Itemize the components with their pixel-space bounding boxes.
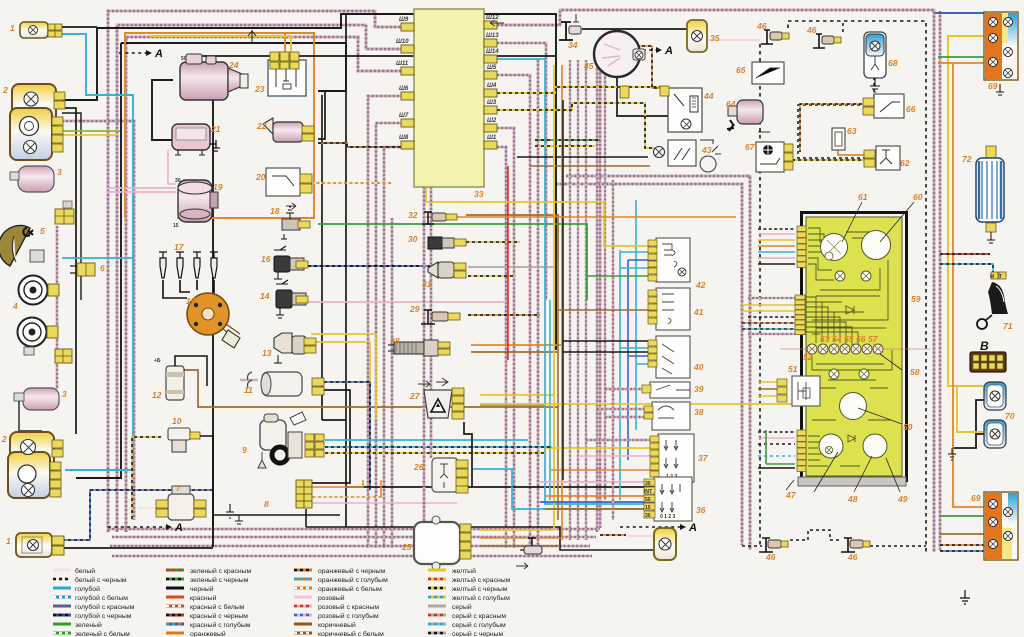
wire feeds switch 40 [620,347,656,349]
wire brown from coil 12 [181,370,558,407]
svg-text:15: 15 [186,296,196,306]
switch 38 [644,402,690,430]
wire striped verticals below fusebox [423,187,426,522]
wire dashed A marker top left [119,52,146,54]
wire orange main left loop [125,33,314,218]
switch 62 [864,146,900,170]
svg-text:Ш8: Ш8 [399,135,409,141]
wire blue ignition 36 [540,501,654,503]
wire orange-black 66 feed [800,104,862,152]
svg-text:10: 10 [172,416,182,426]
wire dashed boundary left [759,44,761,545]
wire yellow-black from fusebox Sh4 [497,87,662,93]
wire blue-black bottom 69 [940,550,985,552]
headlight 2 top [10,84,65,160]
svg-text:зеленый: зеленый [75,621,102,629]
wire orange resistor 63 to 62 [838,148,864,155]
wire yellow-black pump 10 [132,437,161,520]
svg-text:голубой с белым: голубой с белым [75,594,128,602]
distributor 15 [187,293,240,348]
cluster gauge 48 [819,434,843,458]
svg-text:желтый с красным: желтый с красным [452,576,511,584]
wire yellow-green headlamp stubs [62,130,120,132]
svg-text:71: 71 [1003,321,1013,331]
svg-text:53: 53 [820,334,830,344]
wire striped left bundle 4 [62,121,134,520]
wire orange-black switch 22 [318,143,403,147]
svg-text:24: 24 [228,60,239,70]
svg-text:44: 44 [703,91,714,101]
heater radiator 72 [976,146,1004,243]
wire cluster stubs upper [758,228,795,230]
washer pump 7 [156,486,234,520]
svg-text:A: A [688,522,697,534]
wire pink block 8 [311,502,457,504]
wire black weave horizontal [517,156,648,158]
wire gray from sensor 31 [468,266,556,268]
legend column 1 [53,567,135,637]
svg-text:46: 46 [806,25,817,35]
svg-text:46: 46 [847,552,858,562]
wire dashed bottom sensors 46 [742,545,762,547]
svg-text:46: 46 [756,21,767,31]
svg-text:40: 40 [693,362,704,372]
sensor 32 [422,212,457,224]
svg-text:45: 45 [583,61,594,71]
red guide line across cluster [780,348,930,350]
svg-text:14: 14 [260,291,270,301]
washer pump 11 [248,372,325,396]
wire cyan relay 26 [473,469,648,509]
svg-text:30: 30 [175,178,181,184]
wire orange sensor 28 [471,344,562,346]
cluster lamps mid pair [829,369,839,379]
svg-text:57: 57 [868,334,879,344]
svg-text:16: 16 [261,254,271,264]
wire red-black heater 72 [940,253,990,255]
sensor 30 [428,237,466,249]
svg-text:5: 5 [40,226,45,236]
wire yellow-black sensor 31 [468,275,516,277]
relay 44 [620,86,702,132]
wire black vertical x612 area [562,100,564,480]
fuse box left connectors Sh9-Sh8 [401,23,414,149]
svg-text:43: 43 [701,145,712,155]
wire yellow fusebox top stubs [290,36,292,57]
wire orange pair block 8 [310,480,363,487]
wire cyan sidelamp run [62,34,133,470]
wire black mid vertical x213 [212,97,214,547]
svg-text:11: 11 [244,385,253,395]
svg-text:12: 12 [152,390,162,400]
svg-text:55: 55 [844,334,854,344]
wire striped feed switch 37 [586,439,650,441]
switch 43 [654,140,722,172]
wire pink feed switch 37 [578,455,650,457]
svg-text:3: 3 [62,389,67,399]
wire orange-white relay 20 [314,182,392,184]
clock 45 [594,31,645,77]
lamp block 69 bottom [984,492,1018,560]
svg-text:35: 35 [710,33,720,43]
wire striped right vertical bundle second [939,11,942,550]
wire brown feed switch 41 [558,309,656,311]
svg-text:Ш3: Ш3 [487,100,497,106]
cluster pins left middle [795,295,805,335]
resistor 63 [832,128,845,150]
svg-text:Ш5: Ш5 [487,65,497,71]
connector mid-left [55,349,72,363]
svg-text:1: 1 [6,536,11,546]
sensor 18 [281,207,310,239]
cluster bottom bar [798,477,906,486]
svg-text:A: A [154,48,163,60]
svg-text:Т: Т [999,274,1002,280]
wire orange top right to 69 and down [938,62,988,64]
lamp 1 top [20,22,97,38]
wire pale pink to lamp 35b [626,535,656,537]
wire blue-black sensor 16 [308,265,430,267]
wire dashed A marker top centre [630,49,656,51]
wire yellow-black dashed weave 2 [535,145,595,147]
wire orange-black to lamp 35b [600,534,626,536]
svg-text:37: 37 [698,453,709,463]
svg-text:39: 39 [694,384,704,394]
wire black left column pair [62,108,76,434]
svg-text:INT: INT [644,489,652,495]
wire green bottom 69 [940,515,985,517]
svg-text:52: 52 [803,352,813,362]
svg-text:2: 2 [2,85,8,95]
wire brown relay 25 [480,545,560,547]
svg-text:69: 69 [988,81,998,91]
svg-text:Ш7: Ш7 [399,113,409,119]
svg-text:50: 50 [903,422,913,432]
gear shifter 71 [977,282,1008,329]
svg-text:9: 9 [242,445,247,455]
svg-text:67: 67 [745,142,756,152]
cluster lamps top pair [835,271,845,281]
wire cyan-black heater 72 [940,264,993,272]
connector block B [970,352,1006,372]
connector square left [63,201,72,208]
cluster gauge 61 [821,234,848,261]
svg-text:розовый: розовый [318,594,345,602]
svg-text:оранжевый с белым: оранжевый с белым [318,585,382,593]
svg-text:голубой с черным: голубой с черным [75,612,132,620]
wire pink ignition 36 [540,481,654,483]
brake switch 34 bottom [520,538,542,554]
wire orange-black bottom 69 [940,544,985,546]
svg-text:белый: белый [75,567,95,575]
svg-text:коричневый с белым: коричневый с белым [318,630,384,637]
sensor 46b [813,34,841,48]
reservoir 3 top [10,166,74,224]
wire striped vertical x613 [612,180,614,520]
sensor 29 [421,310,460,324]
svg-text:60: 60 [913,192,923,202]
svg-text:4: 4 [12,301,18,311]
wire black feeds 40 [563,340,648,342]
svg-text:30: 30 [408,234,418,244]
svg-text:голубой: голубой [75,585,100,593]
wire black 22 to 23 [318,91,325,139]
wire blue-black washer 11 [324,382,370,490]
svg-text:оранжевый с голубым: оранжевый с голубым [318,576,388,584]
svg-text:Ш1: Ш1 [487,135,497,141]
wire green feed switch 41 [587,275,648,277]
svg-text:коричневый: коричневый [318,621,356,629]
relay 20 [266,168,312,196]
svg-text:32: 32 [408,210,418,220]
wire yellow hazard 27 [480,394,554,396]
wire green top right to 69 [938,56,988,58]
svg-text:64: 64 [726,99,736,109]
svg-text:Ш14: Ш14 [486,49,499,55]
wire striped feeds switch 39/38 [605,388,642,390]
svg-text:68: 68 [888,58,898,68]
generator 19 [178,180,218,222]
wire striped pink pair right [556,184,742,545]
wire orange long vertical [561,65,563,540]
svg-text:28: 28 [389,336,400,346]
fuse box 33 [414,9,484,187]
wire black 34 to 35 top [582,28,688,30]
svg-text:B: B [980,339,989,353]
wire black 70 lamps ground [952,400,990,448]
wire red vertical centre [507,166,509,360]
sensor 14 [276,280,308,318]
ignition switch 22 [263,118,314,142]
wire striped frame second [117,25,403,532]
wire black ignition feed 36 [346,486,654,488]
svg-text:зеленый с черным: зеленый с черным [190,576,249,584]
svg-text:зеленый с красным: зеленый с красным [190,567,252,575]
sensor 6 [70,263,95,276]
svg-text:19: 19 [213,182,223,192]
wire dashed A marker bottom left [108,526,166,528]
svg-text:2: 2 [1,434,7,444]
wire black bottom long [56,547,213,549]
fan 5 [0,226,44,266]
wires striped mid-left bundle from fusebox left connectors [368,96,403,548]
svg-text:47: 47 [785,490,797,500]
svg-text:22: 22 [256,121,267,131]
sensor 16 [274,246,308,279]
svg-text:42: 42 [695,280,706,290]
wire bundle wiper 9 [325,439,528,441]
svg-text:18: 18 [270,206,280,216]
svg-text:33: 33 [474,189,484,199]
svg-text:Ш13: Ш13 [486,33,499,39]
svg-text:серый с голубым: серый с голубым [452,621,506,629]
svg-text:49: 49 [897,494,908,504]
dome lamp 70a [984,382,1006,410]
svg-text:A: A [174,522,183,534]
svg-text:48: 48 [847,494,858,504]
wire brown ignition 36 [545,508,654,510]
svg-text:красный с голубым: красный с голубым [190,621,251,629]
wire blue top right to 69 [935,12,988,14]
cluster gauge 49 [863,434,887,458]
wire brown weave horizontal [530,165,650,167]
wire dashed boundary right [788,21,926,552]
wires striped centre bundle from fusebox right connectors [497,147,506,548]
cluster gauge 60 [862,231,891,260]
svg-text:черный: черный [190,585,214,593]
relay 51 [777,376,820,406]
wire orange-black sensor 29 [468,314,540,316]
wire cluster middle pin stubs [748,297,795,299]
svg-text:21: 21 [210,124,221,134]
svg-text:Ш2: Ш2 [487,118,497,124]
wire blue-black tail lamp 1b [56,490,213,540]
starter 24 [180,54,248,100]
svg-text:50: 50 [181,56,187,62]
switch 65 [752,62,784,84]
dome lamp 70b [948,420,1006,460]
fuel pump 10 [168,428,213,526]
wire yellow to relay 23 [150,36,291,57]
ignition switch 36 [644,477,692,521]
plug wires to distributor 15 [163,280,214,298]
svg-text:23: 23 [254,84,265,94]
callout lines cluster [786,202,914,492]
wire green-black dashed weave [535,139,600,141]
svg-text:красный: красный [190,594,217,602]
svg-text:розовый с красным: розовый с красным [318,603,379,611]
wiper motor 9 [258,412,324,468]
svg-text:13: 13 [262,348,272,358]
svg-text:красный с черным: красный с черным [190,612,248,620]
wire orange-black clock to 44 [636,46,664,88]
cluster gauge 50 [840,393,867,420]
heater motor 64 [727,100,763,131]
svg-text:желтый: желтый [452,567,476,575]
svg-text:41: 41 [693,307,704,317]
cluster diode 2 [848,435,855,442]
cluster pins left bottom [797,430,806,472]
svg-text:серый с красным: серый с красным [452,612,506,620]
wire yellow relay 25 [480,529,554,531]
switch 67 [756,142,793,172]
wire orange long y217 [426,216,736,218]
wire brown bottom 69 [940,533,985,535]
wire cyan-blue verticals near switches [619,250,621,500]
wire pink generator pair [106,187,176,189]
svg-text:30: 30 [645,513,651,519]
fuse box right connectors Sh12-Sh1 [484,21,497,149]
wire cyan hazard 27 [480,404,545,406]
wire dashed lamp 68 drop [798,77,874,158]
svg-text:59: 59 [911,294,921,304]
svg-text:29: 29 [409,304,420,314]
wire yellow switch 37 [545,447,658,449]
svg-text:61: 61 [858,192,868,202]
horn 4a [19,276,60,305]
wire yellow pair sensor 13 [311,334,376,420]
wire dashed A marker bottom centre [620,526,680,528]
sensor 46a [761,30,789,44]
wire striped reservoir drop [56,226,59,389]
wire black verticals centre-left [345,14,347,527]
connector block 8 [296,480,312,508]
wire relay 51 stubs [758,381,777,383]
svg-text:54: 54 [832,334,842,344]
svg-text:25: 25 [401,542,412,552]
wire cluster stubs lower [758,431,795,433]
wire brown sensor 32 [466,215,558,260]
wire pink sensor 14 [308,301,506,303]
wire black top frame [62,14,556,350]
svg-text:желтый с голубым: желтый с голубым [452,594,510,602]
svg-text:зеленый с белым: зеленый с белым [75,630,130,637]
svg-text:Ш11: Ш11 [396,61,409,67]
horn 4b [18,318,59,356]
relay block 23 [248,30,306,96]
sensor 28 [388,340,450,356]
cluster pins left top [797,226,806,268]
sensor 31 [428,262,466,278]
legend column 3 [294,567,388,637]
lamp block 69 top [984,12,1018,95]
wire cyan weave vertical [549,300,551,500]
svg-text:серый с черным: серый с черным [452,630,504,637]
switch 66 [863,94,904,118]
wire brown weave vertical [557,260,559,520]
svg-text:белый с черным: белый с черным [75,576,127,584]
switch 39 [642,382,690,398]
svg-text:красный с белым: красный с белым [190,603,245,611]
svg-text:Ш12: Ш12 [486,15,499,21]
svg-text:72: 72 [962,154,972,164]
wire yellow top right to 69 and 70 [948,36,988,386]
wire pink coil 21 to generator [168,150,176,184]
switch 40 [648,336,690,378]
wire black engine top [196,55,556,57]
svg-text:М: М [990,274,994,280]
wire striped frame outer [108,11,403,532]
legend column 4 [428,567,511,637]
wire yellow long vertical [553,65,555,530]
svg-text:63: 63 [847,126,857,136]
svg-text:30: 30 [645,481,651,487]
wire green sensor 18 [318,224,587,300]
switch 37 [650,434,694,482]
legend column 2 [166,567,252,637]
wire yellow long to relay 51 [480,403,795,405]
wire pink pale 35 top to 46 [706,39,760,41]
svg-text:+Б: +Б [154,358,161,364]
relay 25 [414,516,471,570]
svg-text:58: 58 [910,367,920,377]
svg-text:8: 8 [264,499,269,509]
wire black clock to relay 44 [617,77,676,116]
svg-text:20: 20 [255,172,266,182]
wire dashed stub 46b [842,21,844,32]
svg-text:27: 27 [409,391,421,401]
svg-text:50: 50 [645,497,651,503]
cluster lamp row 52-58 [807,344,883,354]
wire gray washer hose 11 [240,379,258,381]
svg-text:31: 31 [422,279,432,289]
wire cyan long from fusebox Sh14 [497,59,654,504]
lamp 68 [864,32,886,92]
wire yellow-black from fusebox Sh3 [497,103,654,148]
headlight 2 bottom [8,432,63,498]
wires striped weave verticals [569,60,571,540]
svg-text:56: 56 [856,334,866,344]
